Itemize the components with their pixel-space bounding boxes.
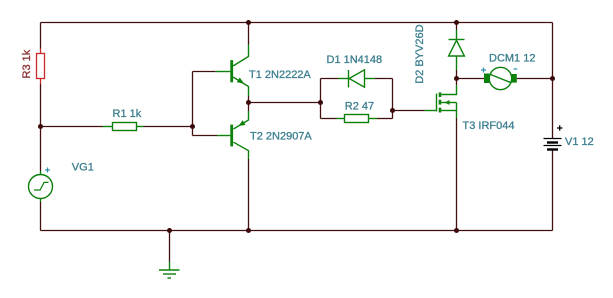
svg-text:D2 BYV26D: D2 BYV26D xyxy=(414,24,426,83)
svg-text:DCM1 12: DCM1 12 xyxy=(489,53,535,65)
svg-text:T2 2N2907A: T2 2N2907A xyxy=(250,130,312,142)
svg-text:T1 2N2222A: T1 2N2222A xyxy=(249,69,311,81)
svg-text:VG1: VG1 xyxy=(72,161,94,173)
svg-text:V1 12: V1 12 xyxy=(565,136,594,148)
svg-text:D1 1N4148: D1 1N4148 xyxy=(327,54,383,66)
svg-text:T3 IRF044: T3 IRF044 xyxy=(463,120,515,132)
svg-text:R1 1k: R1 1k xyxy=(113,108,142,120)
svg-text:R3 1k: R3 1k xyxy=(21,49,33,78)
svg-text:R2 47: R2 47 xyxy=(345,100,374,112)
